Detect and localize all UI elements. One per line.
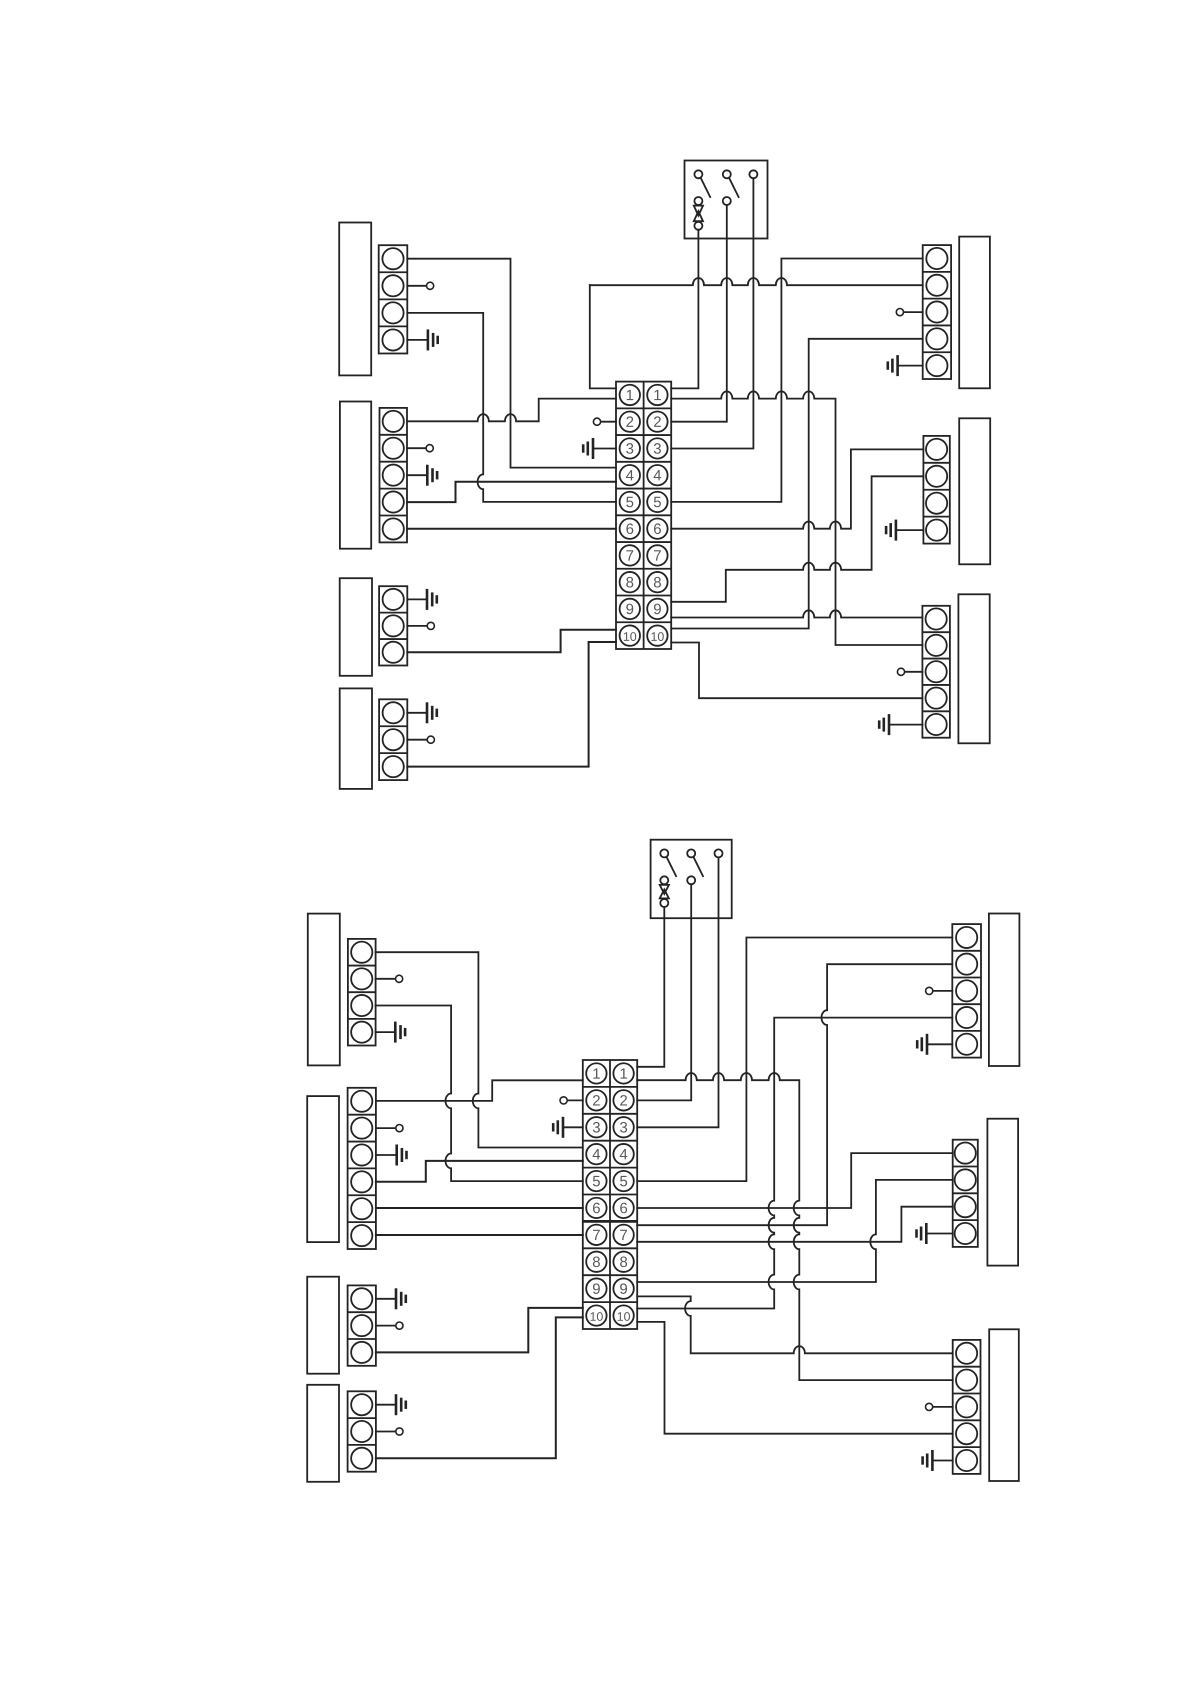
wire bus TB2-R1 to X14-2 (hops, down at x799.3) xyxy=(637,1073,953,1380)
stub X10-1 xyxy=(376,1298,396,1300)
wire X3-3 to TB1-L10 (upper) xyxy=(407,630,616,653)
stub X3-1 xyxy=(407,598,427,600)
open terminal at X5-3 xyxy=(896,309,903,316)
wire X4-3 to TB1-L10 (lower) xyxy=(407,642,616,767)
open terminal at X7-3 xyxy=(897,668,904,675)
ground at X14-5 xyxy=(923,1450,933,1471)
device A10 (left 3rd) xyxy=(307,1277,339,1374)
stub X7-5 xyxy=(889,724,922,726)
wire X1-3 to TB1-L5 (via x483, hops X2-4 wire) xyxy=(407,313,616,502)
connector X8 (4-pin) xyxy=(348,939,376,1046)
ground at X4-1 xyxy=(427,702,437,723)
stub X8-2 xyxy=(376,978,396,980)
stub X3-2 xyxy=(407,625,427,627)
open terminal at X14-3 xyxy=(926,1403,933,1410)
connector X10 (3-pin) xyxy=(348,1285,376,1365)
wire X8-3 to TB2-L5 (down x451.1, hops two wires) xyxy=(376,1006,583,1182)
open terminal at X9-2 xyxy=(396,1125,403,1132)
device A13 (right middle) xyxy=(987,1119,1018,1266)
wire S2 pole-L to TB2-R1 xyxy=(637,907,664,1067)
wire X11-3 to TB2-L10 lower (up at x555.8) xyxy=(376,1317,583,1458)
wire bus corner to TB1-L1 (from top bus) xyxy=(590,285,616,388)
open terminal at X1-2 xyxy=(427,282,434,289)
ground at X11-1 xyxy=(396,1394,406,1415)
wire X2-1 to TB1-L1 (hops x483,x511) xyxy=(407,399,616,422)
wire TB2-R7b to X13-3 (up at x901.4) xyxy=(637,1207,953,1242)
wire TB2-R2 to S2 pole-M xyxy=(637,884,691,1100)
connector X11 (3-pin) xyxy=(348,1391,376,1471)
ground at X7-5 xyxy=(879,714,889,735)
open terminal at X11-2 xyxy=(396,1428,403,1435)
connector X1 (4-pin, top-left) xyxy=(379,245,408,353)
wire TB1-R9b to X7-1 xyxy=(671,610,922,617)
wire TB1-R2 to S1 pole-M xyxy=(671,205,727,422)
stub TB2-L3 xyxy=(563,1126,583,1128)
connector X4 (3-pin, left 4th) xyxy=(379,699,407,780)
device A7 (right bottom) xyxy=(958,594,989,743)
stub X5-3 xyxy=(904,311,923,313)
device A6 (right middle) xyxy=(959,418,990,564)
wire X9-5 to TB2-L6 xyxy=(376,1207,583,1209)
stub X4-1 xyxy=(407,712,427,714)
device A9 (left 2nd) xyxy=(307,1096,339,1242)
ground at X2-3 xyxy=(427,465,437,486)
stub X1-4 xyxy=(407,339,428,341)
device A3 (left 3rd) xyxy=(340,578,372,676)
device A11 (left 4th) xyxy=(307,1385,339,1482)
connector X3 (3-pin, left 3rd) xyxy=(379,586,407,665)
open terminal at X8-2 xyxy=(396,975,403,982)
open terminal at X3-2 xyxy=(427,622,434,629)
open terminal at TB1-L2 xyxy=(593,418,600,425)
ground at X6-4 xyxy=(886,520,896,541)
stub X14-5 xyxy=(932,1460,952,1462)
ground at TB1-L3 xyxy=(583,438,593,459)
open terminal at X12-3 xyxy=(926,987,933,994)
stub X2-2 xyxy=(407,447,426,449)
connector X2 (5-pin, left 2nd) xyxy=(380,408,408,543)
wire TB1-R3 to S1 pole-R xyxy=(671,178,753,448)
connector X12 (5-pin) xyxy=(952,924,981,1058)
wire X10-3 to TB2-L10 upper (up at x528.3) xyxy=(376,1308,583,1353)
ground at X8-4 xyxy=(395,1022,405,1043)
connector X7 (5-pin, right bottom) xyxy=(922,606,950,738)
device A8 (top-left) xyxy=(308,914,340,1066)
open terminal at X2-2 xyxy=(426,445,433,452)
stub X1-2 xyxy=(407,285,426,287)
stub X10-2 xyxy=(376,1325,396,1327)
stub X12-3 xyxy=(933,990,953,992)
ground at X1-4 xyxy=(428,329,438,350)
connector X6 (4-pin, right middle) xyxy=(923,436,949,544)
wire X9-1 to TB2-L1 (step up at x492.2) xyxy=(376,1080,583,1101)
wire TB1-R1 to X7-2 (long drop at x835.5) xyxy=(671,391,922,645)
wire S1 pole-L to TB1-R1 xyxy=(671,230,698,389)
wire TB2-R9b to X14-1 (down at x690.7, hops R10a wire) xyxy=(637,1296,953,1353)
stub X9-3 xyxy=(376,1154,397,1156)
wire X8-1 to TB2-L4 upper (down x478.4, hops X9-1 wire) xyxy=(376,952,583,1147)
terminal block TB2 (bottom diagram, pins 1-10 two columns) xyxy=(583,1060,637,1329)
switch S1 (3-pole, top diagram) xyxy=(685,161,768,239)
wire bus TB1 to X5-2 (hops 3 switch poles and X5-1 drop) xyxy=(590,278,923,285)
wire X9-4 to TB2-L4 lower (step up at x425.8) xyxy=(376,1161,583,1182)
wire TB2-R9a to X13-2 (up at x875.9, hops R7b wire) xyxy=(637,1180,953,1282)
device A14 (right bottom) xyxy=(989,1329,1019,1481)
wire TB2-R6 to X13-1 (up at x851.2) xyxy=(637,1153,953,1208)
stub TB1-L2 xyxy=(601,421,616,423)
wire X1-1 to TB1-L4 (via x511) xyxy=(407,259,616,468)
device A2 (left 2nd) xyxy=(340,402,371,549)
connector X5 (5-pin, top-right) xyxy=(923,245,951,379)
ground at X9-3 xyxy=(397,1145,407,1166)
stub X8-4 xyxy=(376,1031,396,1033)
wire TB2-R5 to X12-1 (up at x746.4) xyxy=(637,938,952,1182)
terminal block TB1 (top diagram, pins 1-10 two columns) xyxy=(616,382,671,649)
wire TB1-R5 to X5-1 (up at x781.4) xyxy=(671,259,923,502)
connector X9 (6-pin) xyxy=(348,1088,376,1249)
stub X5-5 xyxy=(898,365,923,367)
ground at TB2-L3 xyxy=(553,1117,563,1138)
ground at X13-4 xyxy=(917,1223,927,1244)
stub X12-5 xyxy=(927,1043,952,1045)
open terminal at TB2-L2 xyxy=(560,1097,567,1104)
wire X2-4 to TB1-L4 (step up at x455) xyxy=(407,482,616,502)
wire TB1-R9a to X6-2 (step at x725.8, up at x871.6) xyxy=(671,476,923,602)
wire X2-5 to TB1-L6 xyxy=(407,528,616,530)
stub X7-3 xyxy=(905,671,923,673)
stub TB1-L3 xyxy=(593,448,616,450)
stub X6-4 xyxy=(896,529,924,531)
ground at X3-1 xyxy=(427,589,437,610)
connector X13 (4-pin) xyxy=(953,1140,978,1247)
wire TB2-R10a to X12-4 (up at x774.2 with hops) xyxy=(637,1018,952,1309)
stub X2-3 xyxy=(407,474,427,476)
stub X14-3 xyxy=(933,1406,953,1408)
wire TB2-R7a to X12-2 (up at x827.1, hops X12-4 wire) xyxy=(637,964,952,1225)
ground at X12-5 xyxy=(917,1034,927,1055)
stub X9-2 xyxy=(376,1127,396,1129)
device A1 (top-left) xyxy=(339,223,371,376)
device A4 (left 4th) xyxy=(340,688,372,789)
stub X4-2 xyxy=(407,739,427,741)
wire TB1-R6 to X6-1 (up at x851) xyxy=(671,449,923,528)
ground at X10-1 xyxy=(396,1288,406,1309)
device A12 (top-right) xyxy=(989,914,1020,1067)
stub TB2-L2 xyxy=(567,1099,583,1101)
stub X11-1 xyxy=(376,1404,396,1406)
open terminal at X4-2 xyxy=(427,736,434,743)
ground at X5-5 xyxy=(888,355,898,376)
wire TB2-R3 to S2 pole-R xyxy=(637,857,718,1127)
stub X13-4 xyxy=(926,1233,952,1235)
switch S2 (3-pole, bottom diagram) xyxy=(651,840,732,919)
stub X11-2 xyxy=(376,1431,396,1433)
connector X14 (5-pin) xyxy=(953,1340,981,1474)
open terminal at X10-2 xyxy=(396,1322,403,1329)
wire TB2-R10b to X14-4 (down at x664.5) xyxy=(637,1322,953,1434)
device A5 (top-right) xyxy=(959,237,990,389)
wire TB1-R10 to X5-4 (up at x808.7) xyxy=(671,339,923,629)
wire X9-6 to TB2-L7 xyxy=(376,1234,583,1236)
wire TB1-R10 to X7-4 (down at x699) xyxy=(671,643,922,699)
